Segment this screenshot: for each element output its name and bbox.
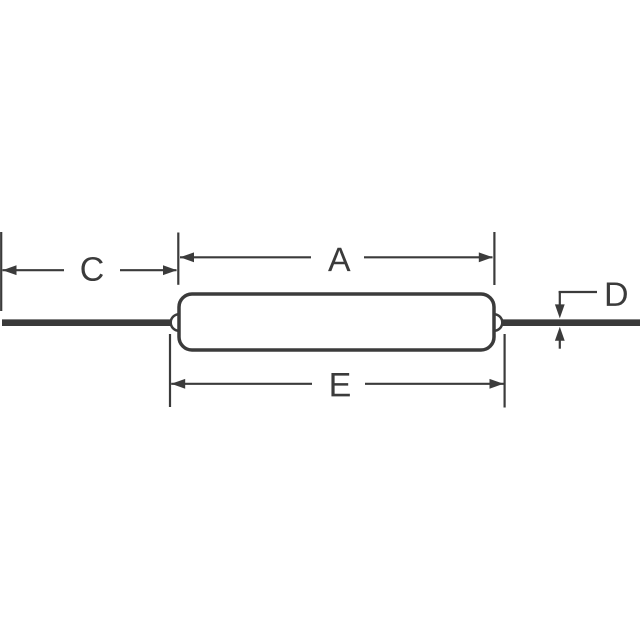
dimension E label [331,373,349,396]
extension line E right [504,334,506,408]
dimension C line right segment [120,269,177,271]
extension line far left [0,232,2,311]
dimension A line right segment [364,256,493,258]
dimension A line left segment [180,256,311,258]
dimension D lower arrowhead [555,327,565,341]
extension line body right top [493,232,495,285]
extension line body left top [177,233,179,285]
left lead end cap [171,314,179,331]
right lead end cap [494,314,502,331]
dimension A arrow left [180,252,194,262]
dimension D upper arrow shaft [559,291,561,308]
dimension E line left segment [171,383,312,385]
dimension C arrow left [3,265,17,275]
left lead wire [2,319,171,326]
right lead wire [501,319,640,326]
dimension E arrow right [490,379,504,389]
dimension E arrow left [171,379,185,389]
dimension C line left segment [3,269,65,271]
dimension D label [607,283,627,306]
dimension D lower arrow shaft [559,335,561,349]
dimension D upper arrowhead [555,304,565,318]
dimension D leader line [559,291,597,293]
component body [179,294,494,350]
dimension C arrow right [163,265,177,275]
dimension A arrow right [479,252,493,262]
dimension A label [328,248,351,271]
extension line E left [169,334,171,407]
dimension E line right segment [365,383,504,385]
dimension C label [81,257,103,281]
